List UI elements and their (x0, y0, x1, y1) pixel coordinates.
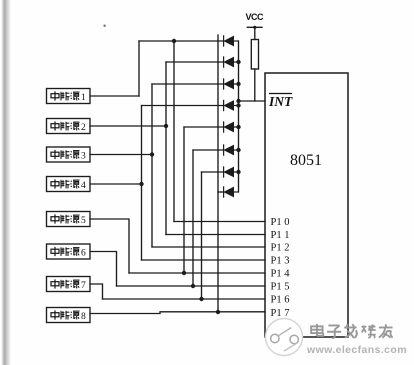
wire source2 vertical (165, 62, 167, 235)
8051 microcontroller U1 (265, 73, 348, 337)
wire diode row 2 (166, 61, 224, 63)
svg-text:P1 5: P1 5 (271, 282, 290, 293)
junction dots (139, 26, 256, 314)
wire source8 box to P1.7 (90, 312, 265, 314)
svg-text:P1 2: P1 2 (271, 243, 290, 254)
wire source2 box to vertical (90, 125, 166, 127)
wire source8 riser long vertical (217, 35, 219, 312)
node source7 tap (199, 297, 203, 301)
node bus row2 (236, 60, 240, 64)
svg-text:4: 4 (81, 181, 86, 191)
wire diode row 4 (142, 105, 224, 107)
svg-text:8051: 8051 (290, 152, 322, 169)
node bus INT tap (236, 99, 240, 103)
interrupt source box 2 (47, 119, 91, 134)
svg-text:P1 7: P1 7 (271, 308, 290, 319)
stray scan speck (104, 25, 106, 27)
wire P1.0 (174, 221, 265, 223)
svg-text:3: 3 (81, 152, 86, 162)
svg-text:P1 4: P1 4 (271, 269, 291, 280)
wire source6 box step (90, 252, 117, 287)
pin labels P1.0-P1.7 (271, 217, 291, 319)
wire source5 riser (183, 127, 185, 273)
wire diode row 7 (202, 171, 224, 173)
wire source6 riser (192, 150, 194, 286)
svg-text:8: 8 (81, 312, 86, 322)
interrupt source box 3 (47, 147, 91, 162)
diode D8 (224, 186, 239, 197)
diode D4 (224, 100, 239, 111)
node bus row5 (236, 125, 240, 129)
interrupt source box 1 (47, 89, 91, 104)
svg-text:www.elecfans.com: www.elecfans.com (306, 344, 407, 356)
node source6 tap (191, 284, 195, 288)
node source4 tap (139, 182, 143, 186)
wire diode row 5 (184, 126, 224, 128)
wire INT line to 8051 (239, 100, 266, 102)
diodes D1-D8 (224, 35, 239, 197)
wire diode row 8 (218, 191, 224, 193)
svg-text:P1 6: P1 6 (271, 295, 290, 306)
diode D1 (224, 35, 239, 46)
node bus row4 (236, 103, 240, 107)
interrupt source box 5 (47, 212, 91, 227)
node source8 tap (216, 310, 220, 314)
svg-text:7: 7 (81, 281, 86, 291)
wire diode row 3 (152, 83, 224, 85)
interrupt source box labels 中断源 1-8 (51, 91, 86, 322)
node source5 tap (182, 271, 186, 275)
wire P1.4 (129, 272, 265, 274)
wire diode row 1 (139, 40, 224, 42)
node bus row7 (236, 170, 240, 174)
node source3 tap (150, 152, 154, 156)
wire P1.6 (103, 298, 266, 300)
scanner gutter band left edge (1, 0, 11, 365)
interrupt source box 7 (47, 277, 91, 292)
wire source4 box to vertical (90, 183, 142, 185)
diode D3 (224, 78, 239, 89)
svg-text:INT: INT (268, 94, 293, 109)
diode D5 (224, 121, 239, 132)
wire source3 vertical (151, 84, 153, 247)
svg-text:1: 1 (81, 93, 86, 103)
wire resistor top stub (254, 27, 256, 39)
diode D6 (224, 144, 239, 155)
svg-text:P1 1: P1 1 (271, 230, 290, 241)
wire source7 box step (90, 284, 103, 299)
svg-text:5: 5 (81, 216, 86, 226)
pull-up resistor R (251, 40, 258, 70)
watermark text 电子发烧友 (311, 324, 392, 338)
wire source5 box step (90, 219, 129, 273)
diode D7 (224, 166, 239, 177)
wire diode row 6 (193, 149, 224, 151)
wire P1.1 (166, 234, 265, 236)
svg-text:6: 6 (81, 249, 86, 259)
node bus row6 (236, 148, 240, 152)
wire P1.2 (152, 246, 265, 248)
svg-text:P1 3: P1 3 (271, 256, 290, 267)
wire source1 box to riser (90, 95, 139, 97)
wire P1.3 (142, 259, 266, 261)
node source1/P1.0 tap (172, 39, 176, 43)
wire P1.5 (117, 285, 266, 287)
wire resistor bottom to INT line (254, 69, 256, 101)
node bus row3 (236, 82, 240, 86)
wire source1 drop to P1.0 (173, 41, 175, 222)
wire source1 riser up (138, 41, 140, 96)
interrupt source box 4 (47, 177, 91, 192)
svg-text:2: 2 (81, 123, 86, 133)
interrupt source box 6 (47, 244, 91, 259)
VCC rail bar (247, 26, 262, 28)
wire source3 box to vertical (90, 154, 152, 156)
wire source4 vertical (141, 106, 143, 261)
INT bus vertical (238, 41, 240, 192)
watermark logo elecfans (266, 319, 303, 356)
diode D2 (224, 56, 239, 67)
svg-text:VCC: VCC (246, 12, 265, 22)
node VCC bar (253, 26, 256, 29)
interrupt source box 8 (47, 308, 91, 323)
wire source7 riser (201, 172, 203, 299)
svg-text:P1 0: P1 0 (271, 217, 290, 228)
label INT with overline (268, 94, 293, 110)
node source2 tap (164, 124, 168, 128)
